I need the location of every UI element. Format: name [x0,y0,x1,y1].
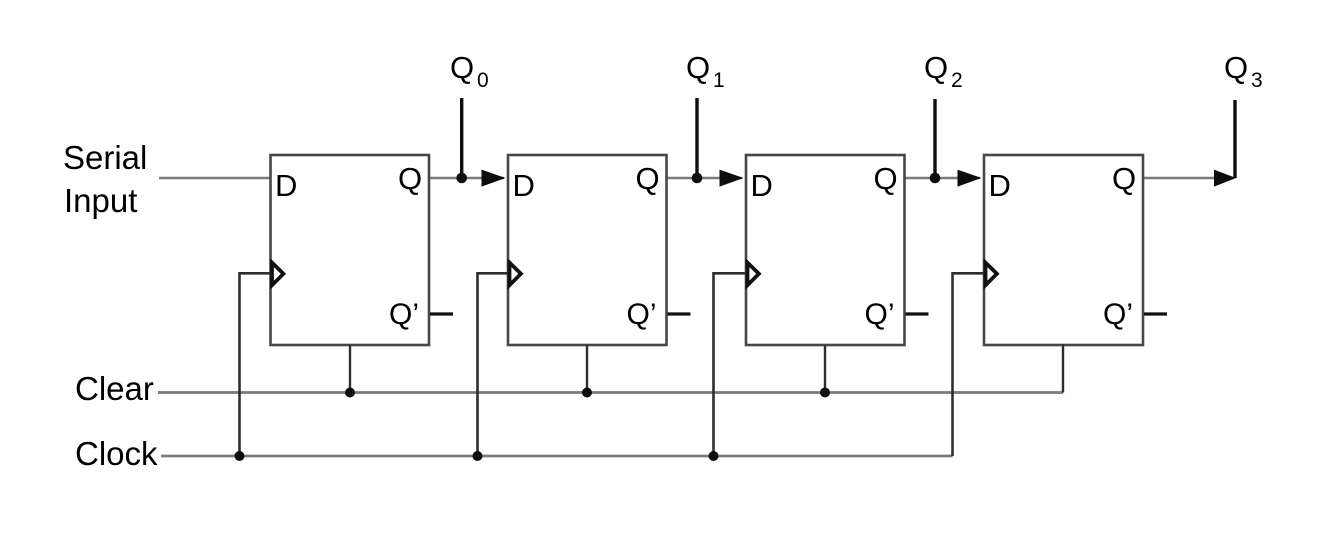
svg-text:D: D [275,168,297,203]
arrowhead output Q3 [1214,170,1236,187]
clear bus [158,391,1063,394]
label Q0 [450,50,489,92]
svg-text:2: 2 [951,69,963,92]
clock elbow FF2 [478,273,509,456]
svg-text:D: D [989,168,1011,203]
Q' stub U2 [668,312,691,315]
label Q1 [686,50,725,92]
svg-text:Q’: Q’ [389,298,419,331]
junction clock FF3 [709,451,719,461]
wire FF3 Q to FF4 D [904,177,980,180]
Q' stub U1 [430,312,453,315]
svg-text:Input: Input [64,182,137,219]
svg-text:Q’: Q’ [1103,298,1133,331]
wire Q2 tap [933,99,936,178]
junction clear FF1 [345,388,355,398]
arrowhead into FF2 D [482,170,506,187]
label Serial Input [63,139,147,219]
svg-text:Clear: Clear [75,370,154,407]
svg-text:D: D [751,168,773,203]
clock elbow FF4 [953,273,985,456]
svg-text:D: D [513,168,535,203]
junction Q1 [692,173,703,184]
D flip-flop U3 [746,155,905,345]
clear tap FF3 [824,345,826,393]
wire Q3 tap [1233,100,1236,178]
D flip-flop U2 [508,155,667,345]
label Q2 [924,50,963,92]
wire FF1 Q to FF2 D [429,177,504,180]
label Q3 [1224,50,1263,92]
clock elbow FF3 [714,273,747,456]
clock elbow FF1 [240,273,271,456]
clock bus [161,455,953,458]
svg-text:Clock: Clock [75,435,158,472]
wire Q0 tap [460,98,463,178]
arrowhead into FF3 D [720,170,744,187]
clock triangle U1 [272,263,283,286]
clear tap FF2 [586,345,588,393]
clear riser to FF4 [1062,344,1064,393]
junction clear FF2 [582,388,592,398]
wire serial input to FF1 D [159,177,272,180]
svg-text:Q: Q [1112,161,1136,196]
arrowhead into FF4 D [958,170,982,187]
clock triangle U2 [510,263,521,286]
wire FF2 Q to FF3 D [666,177,742,180]
svg-text:Q: Q [686,50,710,85]
svg-text:1: 1 [713,69,725,92]
junction clock FF1 [235,451,245,461]
junction clock FF2 [473,451,483,461]
D flip-flop U1 [271,155,430,345]
svg-text:Serial: Serial [63,139,147,176]
wire Q1 tap [695,98,698,178]
junction Q2 [930,173,941,184]
svg-text:Q’: Q’ [865,298,895,331]
svg-text:0: 0 [477,69,489,92]
clock triangle U3 [748,263,759,286]
svg-text:Q: Q [450,50,474,85]
junction clear FF3 [820,388,830,398]
Q' stub U3 [906,312,929,315]
clock triangle U4 [986,263,997,286]
svg-text:Q: Q [398,161,422,196]
svg-text:Q: Q [636,161,660,196]
svg-text:Q’: Q’ [627,298,657,331]
D flip-flop U4 [984,155,1143,345]
svg-text:3: 3 [1251,69,1263,92]
svg-text:Q: Q [874,161,898,196]
Q' stub U4 [1144,312,1167,315]
junction Q0 [456,173,467,184]
svg-text:Q: Q [1224,50,1248,85]
wire FF4 Q output [1143,177,1233,180]
svg-text:Q: Q [924,50,948,85]
clear tap FF1 [349,345,351,393]
